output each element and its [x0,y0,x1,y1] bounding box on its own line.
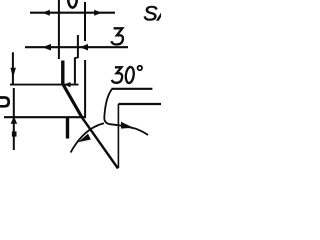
svg-text:SA: SA [143,2,161,26]
